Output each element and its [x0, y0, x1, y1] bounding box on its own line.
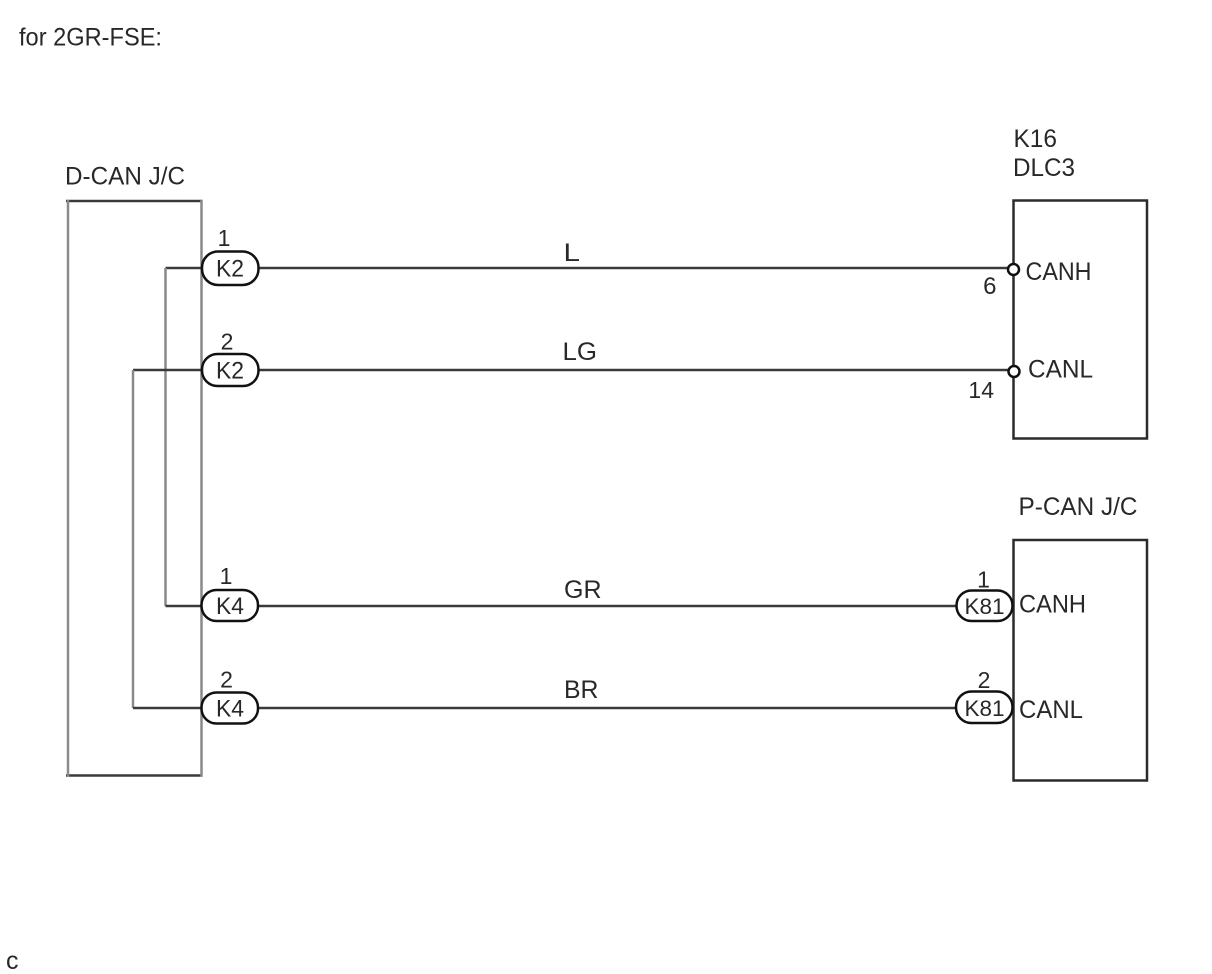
svg-text:K4: K4 — [216, 696, 244, 723]
svg-text:K16: K16 — [1014, 125, 1058, 153]
svg-text:1: 1 — [218, 225, 231, 251]
svg-text:L: L — [564, 239, 581, 267]
svg-text:K81: K81 — [965, 594, 1005, 619]
pin 14 terminal circle CANL — [1009, 366, 1020, 377]
svg-text:6: 6 — [983, 273, 996, 300]
svg-text:K4: K4 — [216, 593, 244, 620]
wire L : K2-1 to DLC3 pin 6 — [259, 267, 1009, 270]
wire stub to K4 pin 2 — [133, 707, 202, 710]
connector oval K2 pin 2 — [202, 354, 259, 386]
junction connector box P-CAN J/C — [1014, 540, 1148, 781]
svg-text:1: 1 — [220, 563, 233, 589]
svg-text:CANL: CANL — [1019, 696, 1083, 724]
svg-text:CANH: CANH — [1026, 258, 1092, 286]
connector oval K2 pin 1 — [202, 252, 259, 286]
svg-text:P-CAN J/C: P-CAN J/C — [1019, 493, 1138, 521]
svg-text:1: 1 — [977, 567, 990, 593]
svg-text:DLC3: DLC3 — [1013, 154, 1075, 182]
wire LG : K2-2 to DLC3 pin 14 — [259, 369, 1009, 372]
wire GR : K4-1 to K81-1 — [258, 605, 957, 608]
wire BR : K4-2 to K81-2 — [258, 707, 957, 710]
svg-text:K2: K2 — [216, 358, 244, 385]
connector oval K4 pin 1 — [202, 590, 259, 621]
junction connector box D-CAN J/C — [66, 200, 203, 777]
wire vertical K2 pin2 to K4 pin2 — [132, 370, 135, 708]
connector box K16 DLC3 — [1014, 201, 1148, 439]
svg-text:K81: K81 — [965, 696, 1005, 721]
svg-text:BR: BR — [564, 676, 599, 704]
pin 6 terminal circle CANH — [1008, 264, 1019, 275]
svg-text:for 2GR-FSE:: for 2GR-FSE: — [19, 24, 162, 52]
svg-text:c: c — [6, 947, 19, 974]
svg-text:2: 2 — [220, 667, 233, 693]
svg-text:K2: K2 — [216, 256, 244, 283]
svg-text:2: 2 — [978, 667, 991, 693]
svg-text:14: 14 — [968, 377, 994, 403]
svg-text:CANL: CANL — [1028, 356, 1093, 384]
connector oval K81 pin 2 — [956, 692, 1013, 724]
wire vertical K2 pin1 to K4 pin1 — [164, 268, 167, 606]
wire stub to K4 pin 1 — [166, 605, 202, 608]
wire stub to K2 pin 2 — [133, 369, 202, 372]
connector oval K81 pin 1 — [957, 591, 1013, 622]
connector oval K4 pin 2 — [202, 693, 259, 724]
svg-text:GR: GR — [564, 576, 602, 604]
svg-text:D-CAN J/C: D-CAN J/C — [65, 163, 185, 191]
svg-text:LG: LG — [563, 338, 598, 366]
wire stub to K2 pin 1 — [166, 267, 203, 270]
svg-text:2: 2 — [221, 329, 234, 355]
svg-text:CANH: CANH — [1019, 591, 1086, 619]
